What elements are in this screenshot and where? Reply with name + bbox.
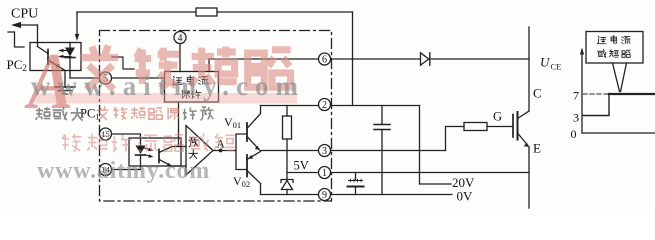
watermark benwenwei [36, 107, 84, 120]
wire overcurrent box output down to amp input [178, 102, 180, 147]
UCE graph X axis [582, 132, 655, 134]
wire amp output to node A [213, 150, 236, 152]
svg-text:G: G [493, 110, 502, 124]
wire top supply line [77, 11, 196, 13]
svg-text:E: E [533, 141, 541, 156]
svg-text:CE: CE [551, 62, 562, 72]
PC2 light arrows [60, 50, 71, 52]
PC2 phototransistor [47, 50, 49, 65]
wire top supply line right [217, 11, 353, 13]
PC1 LED [136, 146, 146, 155]
svg-text:3: 3 [322, 146, 327, 157]
hybrid IC boundary (dash-dot box) [100, 31, 332, 202]
svg-text:9: 9 [322, 190, 327, 201]
wire pin5 line (PC2 LED cathode to overcurrent box) [70, 77, 165, 79]
wire pin1 line [287, 172, 529, 174]
watermarks [24, 37, 305, 184]
capacitor C2 (pin2-pin9) [381, 106, 383, 125]
transistor V01 [246, 123, 248, 141]
pin 6 [319, 53, 331, 65]
capacitor C1 (electrolytic, pin1-pin9) [355, 173, 357, 181]
wire pin2 top rail [261, 105, 420, 107]
wire pin6 to overcurrent box [208, 59, 210, 72]
pin 9 [319, 189, 331, 201]
UCE step waveform [583, 94, 610, 116]
svg-text:1: 1 [322, 168, 327, 179]
overcurrent protection box [165, 72, 219, 103]
wire base connector V01/V02 [236, 134, 247, 170]
wire pin3 mid rail [260, 150, 446, 152]
svg-text:0V: 0V [457, 189, 474, 204]
PC1 phototransistor [158, 150, 160, 163]
resistor RG [464, 123, 487, 131]
pin 4 [174, 32, 186, 44]
svg-text:www.aitmy.com: www.aitmy.com [31, 71, 305, 101]
PC2 LED [69, 43, 71, 48]
svg-text:PC1: PC1 [80, 107, 100, 122]
svg-text:A: A [217, 139, 226, 151]
watermark big aitemaoyi glyph row [81, 45, 291, 89]
svg-text:C: C [533, 86, 542, 101]
UCE graph Y axis [581, 53, 583, 133]
svg-text:7: 7 [573, 89, 579, 103]
transistor V02 [246, 155, 248, 177]
pin 15 [100, 128, 112, 140]
optocoupler PC2 box [30, 43, 81, 71]
dashed 7-level [583, 93, 609, 95]
wire 20V stub [420, 183, 452, 185]
watermark aitemaoyiwang [97, 106, 180, 120]
wire supply drop to pin2 rail [352, 12, 354, 106]
wire pin4 to overcurrent box [179, 44, 181, 72]
watermark big A [24, 37, 72, 126]
wire pin15 to PC1 LED [112, 134, 141, 146]
wire pin9 / 0V line [261, 194, 453, 196]
svg-text:4: 4 [178, 33, 183, 44]
wire to gate [487, 126, 513, 128]
callout wedge [613, 63, 620, 92]
svg-text:V01: V01 [224, 115, 241, 130]
op-amp (amplifier triangle) [186, 126, 213, 176]
wire pin6 desat line [209, 58, 421, 60]
label amplify (fake glyphs) [189, 138, 198, 159]
watermark yuanchuang [183, 107, 214, 121]
svg-text:5V: 5V [294, 159, 309, 173]
pin 1 [319, 167, 331, 179]
wire resistor to zener [286, 151, 288, 180]
watermark zhuanzai row1 [62, 133, 235, 151]
watermark pink band [35, 93, 297, 104]
wire PC2 LED anode supply, with down arrow [76, 12, 78, 35]
resistor (V01 collector load) [283, 116, 292, 139]
wire PC1 outputs to amplifier [172, 146, 186, 148]
PC1 light arrows [144, 148, 152, 150]
svg-text:CPU: CPU [11, 7, 38, 22]
node A [219, 149, 223, 153]
pin 3 [319, 145, 331, 157]
svg-text:www.aitmy.com: www.aitmy.com [37, 158, 210, 184]
resistor R (series with PC2 LED) [196, 8, 217, 16]
transistor VT (IGBT) [512, 115, 514, 138]
wire arrow to CPU [14, 24, 38, 26]
pin 2 [319, 99, 331, 111]
PC2 emitter wire to ground [61, 68, 65, 87]
svg-text:2: 2 [322, 100, 327, 111]
svg-text:6: 6 [322, 55, 327, 66]
wire 20V supply drop [419, 106, 421, 185]
svg-text:PC2: PC2 [7, 57, 27, 73]
svg-text:0: 0 [571, 127, 577, 141]
fault signal waveform glyph [8, 32, 24, 47]
wire PC1 LED cathode to pin14 [112, 169, 141, 171]
pin 5 [100, 72, 112, 84]
fault step waveform glyph [112, 57, 134, 69]
wire gate drive path [446, 127, 465, 151]
callout box overcurrent-or-short [586, 32, 643, 64]
zener diode 5V [281, 180, 293, 183]
diode VD (desat detect) [421, 53, 429, 65]
svg-text:U: U [540, 55, 551, 70]
svg-text:3: 3 [573, 111, 579, 125]
pin 14 [100, 164, 112, 176]
ground [55, 86, 75, 88]
optocoupler PC1 box [129, 138, 181, 166]
wire PC2 collector to CPU [37, 25, 39, 43]
label overcurrent-protection (fake glyphs) [173, 75, 208, 98]
